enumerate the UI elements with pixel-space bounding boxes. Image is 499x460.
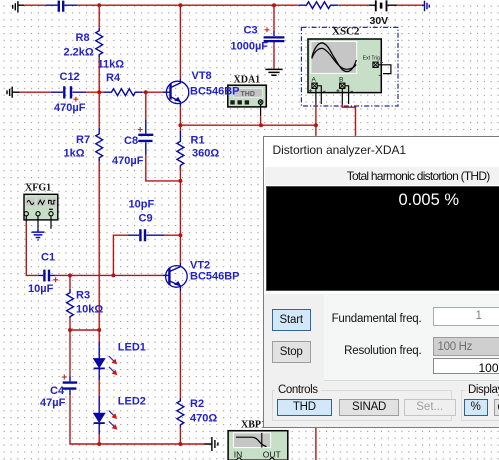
wire ground to C12: [20, 91, 51, 93]
THD button: [277, 399, 332, 416]
dialog lower panel: [264, 294, 499, 427]
svg-text:10pF: 10pF: [129, 199, 155, 211]
Display group box: [461, 390, 499, 422]
node junction C9 branch: [111, 273, 115, 277]
Start button: [272, 309, 311, 331]
wire XDA1 terminal stub: [260, 104, 262, 116]
svg-text:VT8: VT8: [192, 70, 212, 82]
dialog title: [273, 143, 407, 157]
svg-text:470Ω: 470Ω: [190, 413, 217, 425]
dB button (clipped): [494, 399, 499, 416]
polarity plus C8: [138, 127, 143, 132]
field fundamental freq value 1: [433, 307, 499, 326]
node junction scope A wire: [314, 123, 318, 127]
svg-text:47µF: 47µF: [40, 397, 66, 409]
wire branch to LED column: [70, 329, 99, 331]
polarity plus C1: [53, 277, 58, 282]
polarity plus C4: [62, 375, 67, 380]
node junction top at R8 column: [97, 3, 101, 7]
Controls group box: [272, 390, 453, 422]
transistor VT2 BC546BP: [163, 263, 187, 291]
transistor VT8 BC546BP: [163, 78, 189, 107]
svg-text:XSC2: XSC2: [332, 26, 360, 38]
Stop button: [272, 341, 311, 363]
ground top-right (blue): [422, 1, 430, 12]
capacitor C3: [264, 31, 285, 43]
node junction top at VT8 collector column: [178, 3, 182, 7]
wire C9 right lead to rail: [164, 234, 180, 236]
THD header bar: [265, 167, 499, 185]
svg-text:LED2: LED2: [118, 396, 146, 408]
wire resistor R7 column: [98, 92, 100, 128]
node junction R3 top: [68, 273, 72, 277]
readout value 0.005 %: [399, 191, 460, 210]
scope terminal polarity marks: [309, 61, 383, 92]
Set... button (disabled): [404, 399, 456, 416]
capacitor C9: [127, 229, 164, 241]
wire R8 to node: [98, 58, 100, 92]
polarity plus C3: [265, 27, 270, 32]
svg-text:2.2kΩ: 2.2kΩ: [64, 47, 94, 59]
SINAD button: [339, 399, 398, 416]
function generator XFG1: [24, 194, 58, 228]
node junction bottom rail LED: [97, 442, 101, 446]
svg-text:1000µF: 1000µF: [231, 41, 269, 53]
node junction C9 right: [178, 233, 182, 237]
wire C8 bottom to R1 bottom rail: [146, 155, 181, 181]
capacitor C12: [51, 86, 86, 98]
oscilloscope XSC2 dashed selection box: [301, 27, 398, 106]
svg-text:1kΩ: 1kΩ: [64, 148, 85, 160]
svg-text:470µF: 470µF: [54, 102, 86, 114]
capacitor C1: [38, 270, 56, 282]
wire VT8 emitter down: [179, 107, 181, 125]
node junction XDA1 wire: [259, 123, 263, 127]
svg-text:11kΩ: 11kΩ: [98, 59, 125, 71]
resistor R2: [177, 398, 184, 428]
wire C4 to bottom rail: [70, 395, 204, 444]
bode plotter XBP1 icon: [228, 431, 288, 460]
LED1 arrows: [109, 356, 118, 375]
combo resolution freq 100 Hz: [433, 337, 499, 357]
svg-text:C9: C9: [139, 213, 153, 225]
wire C3 to ground: [273, 48, 275, 69]
wire R8 column upper: [98, 5, 100, 28]
wire LED column upper: [98, 330, 100, 342]
dialog window Distortion analyzer-XDA1: [263, 136, 499, 428]
percent button: [464, 399, 488, 416]
svg-text:R3: R3: [76, 290, 90, 302]
Display legend: [465, 384, 499, 396]
wire LED2 to bottom rail: [98, 434, 100, 444]
svg-text:360Ω: 360Ω: [192, 148, 219, 160]
capacitor C2 (top, unlabeled): [45, 1, 77, 12]
wire XDA1 to emitter net: [260, 116, 262, 125]
svg-text:C4: C4: [50, 385, 65, 397]
svg-text:R4: R4: [106, 72, 121, 84]
wire C3 branch: [273, 5, 275, 48]
wire scope channel B down: [342, 104, 355, 136]
capacitor C8: [138, 120, 153, 155]
wire R3 to C4 and branch: [69, 318, 71, 375]
oscilloscope XSC2 icon: [308, 39, 391, 104]
polarity plus C12: [73, 97, 78, 102]
wire C9 left to base row: [113, 235, 127, 275]
svg-text:XDA1: XDA1: [234, 75, 261, 86]
wire R7 down long column: [98, 162, 100, 330]
ground left (C12 row): [7, 87, 20, 98]
wire R4 to VT8 base: [143, 91, 163, 93]
node junction VT8 emitter: [178, 123, 182, 127]
ground XFG1 (blue): [32, 229, 45, 240]
resistor R1: [177, 131, 184, 170]
node junction R3/C4/LED branch: [68, 328, 72, 332]
wire scope channel A down to analyzer net: [315, 104, 317, 136]
wire top rail: [24, 4, 422, 6]
wire VT2 emitter down to R2: [179, 291, 181, 398]
LED2 arrows: [109, 411, 118, 430]
resistor R7: [96, 128, 103, 162]
label Resolution freq.: [284, 345, 422, 357]
ground bottom: [204, 437, 218, 451]
wire VT8 collector to top rail: [179, 5, 181, 78]
LED1: [94, 342, 105, 380]
svg-text:R8: R8: [76, 32, 90, 44]
svg-text:C12: C12: [60, 71, 80, 83]
wire R1 leads: [179, 125, 181, 181]
svg-text:10kΩ: 10kΩ: [76, 304, 103, 316]
svg-text:30V: 30V: [370, 15, 389, 27]
svg-text:R7: R7: [76, 134, 90, 146]
node junction R1 bottom: [178, 179, 182, 183]
svg-text:BC546BP: BC546BP: [190, 86, 240, 98]
distortion analyzer XDA1 icon: [228, 85, 266, 107]
ground C3: [265, 69, 282, 75]
capacitor C4: [63, 376, 77, 395]
wire R2 to bottom rail: [179, 428, 181, 444]
node junction LED column: [97, 328, 101, 332]
node junction C8 branch: [144, 90, 148, 94]
wire continuing below dialog: [315, 427, 317, 460]
svg-text:Ext Trig: Ext Trig: [363, 56, 380, 62]
wire C8 branch down: [145, 92, 147, 119]
svg-text:470µF: 470µF: [112, 155, 144, 167]
svg-text:10µF: 10µF: [28, 283, 54, 295]
wire emitter node to distortion analyzer: [180, 124, 316, 126]
black readout display: [266, 186, 499, 291]
svg-text:R1: R1: [191, 135, 205, 147]
node junction top at C3 column: [272, 3, 276, 7]
resistor R8: [96, 28, 103, 58]
LED2: [94, 396, 105, 434]
textbox 100: [433, 358, 499, 375]
svg-text:C1: C1: [41, 252, 55, 264]
battery V1 30V: [369, 0, 397, 11]
node junction bottom rail R2: [178, 442, 182, 446]
svg-text:R2: R2: [190, 398, 204, 410]
Controls legend: [275, 384, 321, 396]
wire C12 to node: [86, 91, 99, 93]
ground top-left: [13, 1, 24, 12]
svg-text:C3: C3: [244, 25, 258, 37]
wire C1 row / VT2 base row: [26, 222, 163, 276]
svg-text:C8: C8: [124, 135, 138, 147]
resistor R4: [104, 89, 143, 96]
resistor R3: [67, 289, 74, 319]
wire node to R4: [99, 91, 104, 93]
svg-text:LED1: LED1: [118, 342, 146, 354]
label Fundamental freq.: [284, 313, 422, 325]
svg-text:BC546BP: BC546BP: [190, 271, 240, 283]
node junction C12/R8/R4/R7: [97, 90, 101, 94]
freq settings panel: [324, 295, 499, 381]
svg-text:XFG1: XFG1: [25, 183, 51, 194]
wire VT2 collector rail: [179, 181, 181, 263]
wire LED1 to LED2: [98, 380, 100, 396]
resistor R5 (top, label cut off): [299, 2, 338, 9]
svg-text:THD: THD: [241, 91, 255, 98]
wire R3 top lead: [69, 275, 71, 288]
